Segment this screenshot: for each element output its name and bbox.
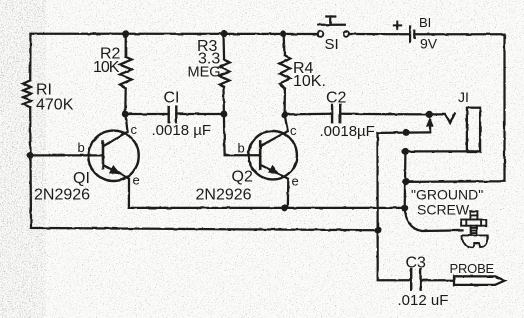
svg-text:b: b xyxy=(238,141,245,156)
node C1 right xyxy=(220,111,227,118)
resistor R2 xyxy=(120,57,132,88)
node C1 left xyxy=(122,111,129,118)
svg-text:470K: 470K xyxy=(36,97,74,114)
wire top rail battery to right corner xyxy=(414,33,504,35)
resistor R1 xyxy=(23,80,31,107)
svg-text:.0018 µF: .0018 µF xyxy=(152,122,212,139)
svg-text:SI: SI xyxy=(325,36,339,53)
wire C2 right lead to jack tip node xyxy=(340,113,429,116)
svg-text:QI: QI xyxy=(73,170,90,187)
probe symbol xyxy=(454,276,505,285)
wire R3 drop xyxy=(222,34,225,60)
wire Q2 base (from R3 node) xyxy=(224,114,260,155)
svg-text:e: e xyxy=(292,174,299,189)
svg-text:.0018µF: .0018µF xyxy=(320,123,375,140)
svg-text:2N2926: 2N2926 xyxy=(34,187,90,204)
wire top rail left section xyxy=(31,33,318,36)
battery plus sign xyxy=(394,22,401,30)
node C2 right jack tip xyxy=(426,111,433,118)
svg-text:e: e xyxy=(133,173,140,188)
node bottom rail end xyxy=(374,227,381,234)
transistor Q1 xyxy=(88,131,138,181)
svg-text:SCREW: SCREW xyxy=(417,202,470,218)
wire top rail right section (switch to battery) xyxy=(349,33,410,36)
svg-text:CI: CI xyxy=(164,90,180,107)
jack tip spring contact xyxy=(429,114,455,123)
svg-text:10K.: 10K. xyxy=(293,73,326,90)
wire R3 bottom to C1 node xyxy=(222,87,225,114)
node emitter rail end xyxy=(401,204,408,211)
node jack sleeve xyxy=(402,148,409,155)
wire curve to ground screw xyxy=(405,208,463,231)
wire right rail xyxy=(406,34,505,182)
svg-text:MEG: MEG xyxy=(188,64,221,80)
wire left rail lower (R1 to bottom corner) xyxy=(30,107,378,230)
node Q2 emitter xyxy=(281,204,288,211)
svg-text:c: c xyxy=(131,122,138,137)
wire C3 to probe xyxy=(421,279,454,281)
svg-text:"GROUND": "GROUND" xyxy=(411,187,483,203)
node ground return xyxy=(402,178,409,185)
node R3 top xyxy=(221,30,228,37)
jack J1 body xyxy=(467,108,480,152)
wire signal vertical down to C3 xyxy=(378,133,412,280)
svg-text:Q2: Q2 xyxy=(232,169,253,186)
svg-text:C2: C2 xyxy=(326,90,347,107)
wire ground bus vertical xyxy=(404,151,407,208)
jack plug arrow xyxy=(429,126,431,133)
svg-text:c: c xyxy=(290,123,297,138)
svg-text:PROBE: PROBE xyxy=(450,261,495,276)
wire emitter rail xyxy=(129,207,405,209)
pushbutton switch S1 xyxy=(318,31,324,37)
wire C1 left lead xyxy=(125,113,168,115)
svg-text:.012 uF: .012 uF xyxy=(398,292,449,309)
wire Q1 base xyxy=(30,154,103,156)
resistor R4 xyxy=(280,55,291,88)
wire C2 left lead xyxy=(285,113,333,116)
ground screw symbol xyxy=(461,211,487,247)
capacitor C2 xyxy=(332,105,340,122)
node C2 left xyxy=(281,111,288,118)
svg-text:9V: 9V xyxy=(420,36,438,52)
wire left rail upper (top corner to R1) xyxy=(29,34,32,81)
battery B1 xyxy=(410,27,414,43)
wire R4 drop xyxy=(282,34,285,56)
resistor R3 xyxy=(220,60,230,87)
node middle wire xyxy=(403,129,410,136)
transistor Q2 xyxy=(249,131,297,179)
wire signal middle xyxy=(378,131,431,134)
wire R2 drop xyxy=(125,34,127,57)
svg-text:BI: BI xyxy=(419,15,431,30)
svg-text:C3: C3 xyxy=(406,255,427,272)
wire R2 bottom to C1 node xyxy=(124,88,127,114)
node Q1 base / left rail xyxy=(27,152,34,159)
wire C1 right lead xyxy=(176,113,224,115)
wire jack sleeve xyxy=(405,150,480,152)
capacitor C1 xyxy=(169,107,177,123)
svg-text:10K: 10K xyxy=(93,59,120,76)
svg-text:2N2926: 2N2926 xyxy=(196,187,252,204)
node R4 top xyxy=(280,30,287,37)
svg-text:b: b xyxy=(78,140,85,155)
node R2 top xyxy=(122,30,129,37)
wire R4 bottom to C2 node xyxy=(283,88,286,115)
capacitor C3 xyxy=(411,269,420,290)
svg-text:JI: JI xyxy=(458,89,469,105)
